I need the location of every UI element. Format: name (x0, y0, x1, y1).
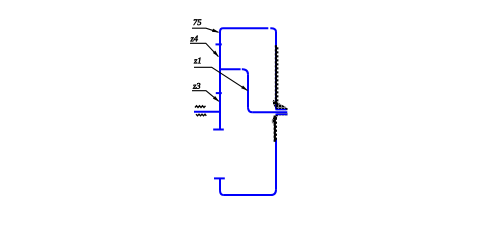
wire: top-left corner arc (220, 28, 223, 32)
wire: top-right corner arc (272, 28, 277, 32)
wire: left vertical upper segment (219, 32, 221, 130)
wire: right vertical lower (275, 140, 277, 190)
wire: top horizontal (223, 27, 272, 29)
node label z3 (192, 83, 219, 102)
wire: step top horizontal (220, 68, 243, 70)
tick at node z4 (216, 43, 222, 45)
wire: left stub vertical lower (219, 178, 221, 190)
wire: step bottom corner arc (248, 108, 252, 113)
terminal T-bar lower end of left vertical (213, 129, 224, 131)
wire: bottom-left corner arc (220, 191, 223, 195)
node label z1 (194, 58, 248, 91)
hatch triangle above flange (273, 100, 288, 111)
node label z4 (190, 36, 219, 57)
terminal T-bar upper end of lower stub (214, 177, 225, 179)
wire: flange lower lip (276, 113, 288, 115)
wire: left stub horizontal (194, 111, 221, 113)
tick at node z3 (216, 92, 222, 94)
hatch triangle below flange (272, 113, 288, 123)
hatch zipper along right vertical upper (275, 45, 279, 105)
wire: step corner arc (243, 69, 248, 74)
wire: flange horizontal main (252, 111, 287, 113)
wire: bottom horizontal (223, 194, 271, 196)
squiggle above left stub (195, 106, 206, 108)
wire: flange upper lip (276, 109, 287, 111)
node label 75 (192, 19, 219, 32)
wire: right vertical upper (275, 32, 277, 110)
wire: step vertical (247, 74, 249, 107)
squiggle below left stub (196, 114, 206, 116)
hatch zipper along right vertical lower (274, 116, 277, 142)
wire: bottom-right corner arc (271, 190, 276, 195)
